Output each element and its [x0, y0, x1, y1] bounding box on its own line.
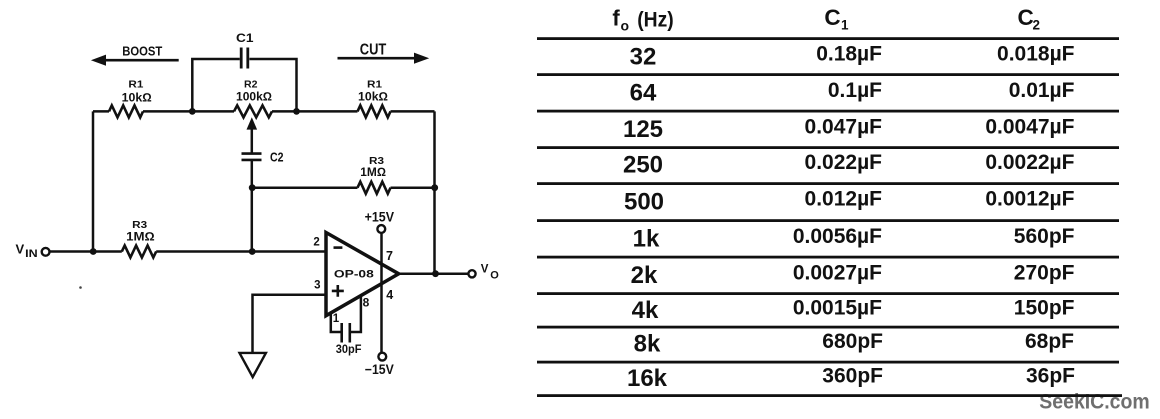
svg-text:30pF: 30pF — [336, 342, 362, 356]
table row 1k — [633, 225, 1075, 253]
capacitor 30pF plates — [342, 323, 350, 343]
wire: right vertical branch — [433, 111, 436, 273]
svg-text:360pF: 360pF — [822, 364, 883, 387]
svg-text:0.018µF: 0.018µF — [997, 43, 1075, 66]
svg-text:4k: 4k — [632, 297, 659, 324]
svg-text:250: 250 — [623, 152, 663, 179]
svg-text:1: 1 — [841, 18, 849, 33]
table rule 11 (bottom) — [537, 394, 1122, 397]
svg-text:125: 125 — [623, 116, 663, 143]
svg-text:(Hz): (Hz) — [637, 8, 674, 31]
ground — [240, 353, 266, 377]
wire: VIN input wire y=251.5 — [50, 250, 326, 253]
table row 4k — [632, 296, 1075, 324]
svg-text:1MΩ: 1MΩ — [126, 229, 155, 243]
resistor R2 (100k pot) zigzag — [234, 105, 272, 117]
wire: left vertical from R1a to VIN wire — [92, 111, 95, 251]
svg-text:C2: C2 — [270, 151, 284, 165]
svg-text:C1: C1 — [236, 31, 254, 45]
svg-text:o: o — [621, 18, 630, 34]
node dot: VIN junction — [90, 248, 97, 255]
capacitor C1 plates — [241, 48, 248, 69]
svg-text:f: f — [612, 6, 620, 31]
table rule 1 — [537, 37, 1119, 40]
wire: C1 loop — [192, 59, 296, 111]
table row 64 — [630, 79, 1075, 107]
BOOST arrow — [104, 59, 179, 62]
svg-text:8k: 8k — [634, 331, 661, 358]
op-amp minus sign — [334, 246, 343, 249]
svg-text:100kΩ: 100kΩ — [236, 90, 272, 104]
svg-text:V: V — [481, 263, 489, 275]
resistor R3 (1M feedback) zigzag — [358, 182, 391, 194]
op-amp plus sign — [332, 285, 344, 297]
svg-text:O: O — [490, 270, 499, 282]
table rule 4 — [537, 146, 1119, 149]
table row 2k — [631, 261, 1075, 289]
svg-text:32: 32 — [630, 43, 657, 70]
svg-text:560pF: 560pF — [1014, 225, 1075, 248]
table rule 3 — [537, 110, 1119, 113]
capacitor C2 plates — [242, 154, 262, 160]
speck artifact — [79, 286, 82, 289]
svg-text:0.047µF: 0.047µF — [805, 115, 883, 138]
svg-text:CUT: CUT — [360, 41, 387, 58]
R2 wiper arrow — [247, 117, 258, 129]
svg-text:2: 2 — [313, 236, 319, 248]
svg-text:10kΩ: 10kΩ — [358, 90, 388, 104]
svg-text:64: 64 — [630, 80, 657, 107]
svg-text:8: 8 — [363, 295, 370, 309]
table rule 2 — [537, 73, 1119, 76]
table rule 7 — [537, 256, 1119, 259]
resistor R1 (right 10k) zigzag — [358, 105, 391, 117]
svg-text:1MΩ: 1MΩ — [360, 165, 386, 179]
svg-text:3: 3 — [314, 280, 320, 292]
svg-text:0.0047µF: 0.0047µF — [985, 115, 1074, 138]
+15V terminal — [377, 225, 385, 233]
wire: wiper stem to C2 and down to inverting input — [251, 127, 254, 252]
svg-text:OP-08: OP-08 — [334, 268, 374, 280]
resistor R1 (left 10k) zigzag — [109, 105, 143, 117]
wire: mid wire y=187.7 to R3b — [252, 186, 434, 189]
wire: pin3 wire to ground — [253, 295, 327, 353]
table row 125 — [623, 115, 1075, 143]
svg-text:0.012µF: 0.012µF — [805, 188, 883, 211]
svg-text:0.0022µF: 0.0022µF — [985, 151, 1074, 174]
svg-text:0.0012µF: 0.0012µF — [985, 188, 1074, 211]
svg-text:16k: 16k — [627, 365, 668, 392]
table rule 6 — [537, 219, 1119, 222]
svg-text:680pF: 680pF — [822, 330, 883, 353]
svg-text:0.0027µF: 0.0027µF — [793, 261, 882, 284]
svg-text:2: 2 — [1033, 18, 1041, 33]
svg-text:+15V: +15V — [365, 209, 394, 224]
node dot: output junction — [432, 270, 439, 277]
svg-text:68pF: 68pF — [1025, 330, 1074, 353]
svg-text:0.1µF: 0.1µF — [828, 79, 882, 102]
table row 16k — [627, 364, 1075, 392]
node dot: C2 to feedback wire junction — [249, 184, 256, 191]
-15V terminal — [378, 353, 386, 361]
CUT arrow — [338, 57, 415, 60]
svg-text:150pF: 150pF — [1014, 296, 1075, 319]
svg-text:2k: 2k — [631, 262, 658, 289]
svg-text:0.0015µF: 0.0015µF — [793, 296, 882, 319]
table row 500 — [624, 188, 1075, 216]
node dot: inverting input junction — [249, 248, 256, 255]
wire: top main wire y=111.4 — [93, 110, 435, 113]
svg-text:0.01µF: 0.01µF — [1009, 79, 1075, 102]
wire: op-amp power rail vertical — [380, 233, 383, 353]
svg-text:7: 7 — [386, 249, 393, 263]
table row 8k — [634, 330, 1075, 358]
svg-text:0.0056µF: 0.0056µF — [793, 225, 882, 248]
table rule 10 — [537, 361, 1119, 364]
svg-text:C: C — [1018, 5, 1034, 30]
svg-text:C: C — [824, 5, 840, 30]
svg-text:−15V: −15V — [365, 362, 394, 377]
node dot: R1a-C1 junction — [189, 108, 196, 115]
table rule 5 — [537, 182, 1119, 185]
svg-text:270pF: 270pF — [1014, 261, 1075, 284]
table row 250 — [623, 151, 1075, 179]
wire: pin1 stub and pin8 stub with 30pF connections — [331, 297, 361, 333]
svg-text:1k: 1k — [633, 226, 660, 253]
svg-text:V: V — [16, 242, 25, 257]
op-amp U1 OP-08 triangle — [326, 233, 399, 316]
table rule 9 — [537, 326, 1119, 329]
svg-text:500: 500 — [624, 188, 664, 215]
svg-text:IN: IN — [25, 248, 38, 260]
table rule 8 — [537, 292, 1119, 295]
svg-text:0.18µF: 0.18µF — [816, 43, 882, 66]
wire: output wire to VO — [399, 273, 469, 276]
svg-text:10kΩ: 10kΩ — [122, 90, 152, 104]
svg-text:SeekIC.com: SeekIC.com — [1039, 389, 1149, 413]
svg-text:0.022µF: 0.022µF — [805, 151, 883, 174]
svg-text:36pF: 36pF — [1026, 364, 1075, 387]
VO terminal — [468, 270, 475, 277]
table row 32 — [630, 43, 1075, 71]
svg-text:4: 4 — [386, 288, 393, 302]
node dot: R3b right junction — [431, 184, 438, 191]
resistor R3 (1M input) zigzag — [122, 246, 156, 258]
svg-text:R1: R1 — [128, 79, 143, 91]
node dot: C1-R2 right junction — [293, 108, 300, 115]
VIN terminal — [42, 248, 50, 256]
svg-text:1: 1 — [333, 313, 340, 325]
svg-text:BOOST: BOOST — [122, 45, 162, 59]
